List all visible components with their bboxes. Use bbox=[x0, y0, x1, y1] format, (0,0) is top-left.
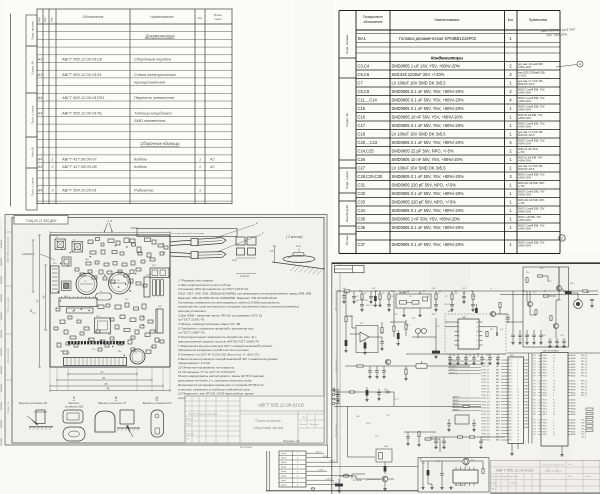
svg-text:R1: R1 bbox=[346, 293, 348, 295]
output stage box bbox=[523, 267, 569, 347]
svg-text:SMD0805 22 pF 50V, NPO, +/-5%: SMD0805 22 pF 50V, NPO, +/-5% bbox=[392, 149, 454, 154]
svg-text:Р0: Р0 bbox=[534, 392, 536, 394]
ground bbox=[402, 308, 405, 317]
svg-text:Обозначение: Обозначение bbox=[83, 15, 104, 19]
svg-text:SMD0805 0.1 uF 50V, Y5V, +80%/: SMD0805 0.1 uF 50V, Y5V, +80%/-20% bbox=[392, 242, 464, 247]
svg-text:Фор.: Фор. bbox=[44, 16, 47, 22]
wire riser from PCB edge bbox=[327, 445, 329, 458]
svg-text:ПОРТ_8.0: ПОРТ_8.0 bbox=[482, 385, 490, 387]
svg-text:+12В_4: +12В_4 bbox=[318, 470, 324, 472]
ground bbox=[368, 375, 371, 378]
ground bbox=[488, 362, 491, 365]
ground bbox=[434, 308, 437, 311]
resistor R54 bbox=[535, 310, 537, 315]
svg-text:5: 5 bbox=[459, 340, 460, 342]
svg-text:7: 7 bbox=[517, 379, 518, 381]
svg-text:ВВ15: ВВ15 bbox=[496, 408, 500, 410]
svg-text:Цепь5: Цепь5 bbox=[281, 471, 286, 473]
capacitor C33 (electrolytic) bbox=[397, 330, 400, 342]
svg-text:C65: C65 bbox=[560, 335, 563, 337]
svg-text:РВ3.4: РВ3.4 bbox=[543, 420, 547, 422]
svg-text:ТЗЩ-00.21 555 ДВУ: ТЗЩ-00.21 555 ДВУ bbox=[25, 219, 57, 223]
vertical dimension 15 bbox=[32, 240, 35, 292]
svg-text:Р1: Р1 bbox=[534, 426, 536, 428]
svg-text:BA1: BA1 bbox=[586, 291, 590, 294]
ground bbox=[456, 362, 459, 365]
inductor L2 (coupled coils) bbox=[415, 328, 426, 333]
svg-text:ВЫХ2: ВЫХ2 bbox=[571, 373, 576, 375]
svg-text:Сборочный чертеж: Сборочный чертеж bbox=[253, 426, 284, 430]
svg-text:Справ. №: Справ. № bbox=[6, 402, 10, 414]
smd component E27 bbox=[107, 271, 112, 274]
op-amp DA3 bbox=[356, 326, 378, 353]
board reference labels bbox=[53, 237, 162, 355]
electrolytic capacitor C5 bbox=[76, 274, 97, 295]
svg-text:R56: R56 bbox=[570, 283, 573, 285]
capacitor C52 bbox=[464, 354, 468, 362]
svg-text:R21: R21 bbox=[60, 351, 63, 353]
svg-text:P0.0: P0.0 bbox=[509, 411, 512, 413]
resistor R66 bbox=[418, 432, 420, 443]
inductor L1 (oval) bbox=[96, 293, 112, 300]
svg-text:РВ1.5: РВ1.5 bbox=[543, 381, 547, 383]
IC DA2 TDA7233 bbox=[445, 314, 506, 354]
svg-text:ПОРТ_11.1: ПОРТ_11.1 bbox=[482, 395, 490, 397]
svg-text:1: 1 bbox=[199, 188, 201, 192]
svg-text:Перв. примен.: Перв. примен. bbox=[31, 20, 35, 40]
svg-text:R33: R33 bbox=[432, 314, 435, 316]
svg-text:Цепь7: Цепь7 bbox=[281, 480, 286, 482]
smd component E15 bbox=[152, 240, 156, 244]
smd component F8 bbox=[118, 270, 122, 273]
svg-text:Р0: Р0 bbox=[534, 408, 536, 410]
smd component E62 bbox=[152, 345, 156, 348]
svg-text:ВВ20: ВВ20 bbox=[496, 424, 500, 426]
wire into title area bbox=[337, 290, 340, 292]
svg-text:ВВ7: ВВ7 bbox=[496, 382, 499, 384]
svg-text:РВ2.5: РВ2.5 bbox=[543, 406, 547, 408]
smd component E39 bbox=[134, 307, 139, 310]
svg-text:LV 100uF 16V SMD DK 3x5.5: LV 100uF 16V SMD DK 3x5.5 bbox=[392, 166, 447, 171]
transistor VT3 bbox=[385, 359, 390, 364]
capacitor C41 bbox=[496, 332, 497, 336]
svg-text:1: 1 bbox=[297, 453, 298, 455]
pad K4 bbox=[62, 281, 72, 291]
svg-text:РВ2.2: РВ2.2 bbox=[543, 403, 547, 405]
ground bbox=[377, 397, 380, 400]
capacitor C61 bbox=[518, 330, 522, 341]
svg-text:Цепь3: Цепь3 bbox=[281, 462, 286, 464]
IC DD2 bbox=[541, 350, 568, 446]
ground bbox=[480, 362, 483, 365]
smd component E25 bbox=[80, 273, 85, 276]
svg-text:16: 16 bbox=[517, 408, 519, 410]
svg-text:22: 22 bbox=[553, 387, 555, 389]
capacitor C76 (electrolytic horizontal) bbox=[335, 479, 343, 489]
svg-text:SMD0805 1 uF 16V, Y5V, +80%/-2: SMD0805 1 uF 16V, Y5V, +80%/-20% bbox=[392, 64, 461, 69]
svg-text:22: 22 bbox=[517, 427, 519, 429]
svg-text:C7: C7 bbox=[358, 81, 364, 86]
svg-text:АВГТ 555.12.00-01Э1: АВГТ 555.12.00-01Э1 bbox=[495, 469, 534, 473]
svg-text:Инв.№: Инв.№ bbox=[31, 147, 35, 157]
svg-text:Схема электрическая: Схема электрическая bbox=[134, 72, 176, 77]
svg-text:4: 4 bbox=[579, 63, 581, 67]
svg-text:DA1: DA1 bbox=[85, 258, 89, 261]
svg-text:установки DD5: установки DD5 bbox=[64, 405, 84, 408]
resistor R32 bbox=[405, 320, 407, 336]
svg-text:25: 25 bbox=[553, 389, 555, 391]
svg-text:ВЫХ5: ВЫХ5 bbox=[571, 395, 576, 397]
svg-text:SMD0805 0.1 uF 50V, Y5V, +80%/: SMD0805 0.1 uF 50V, Y5V, +80%/-20% bbox=[392, 208, 464, 213]
svg-text:C51: C51 bbox=[452, 355, 455, 357]
svg-text:VT3: VT3 bbox=[406, 325, 409, 327]
svg-text:РЕГ_3.1: РЕГ_3.1 bbox=[581, 384, 587, 386]
capacitor C62 bbox=[590, 299, 594, 304]
smd component F14 bbox=[140, 325, 144, 328]
svg-text:ПОРТ_3.1: ПОРТ_3.1 bbox=[482, 369, 490, 371]
svg-text:Цепь8: Цепь8 bbox=[281, 485, 286, 487]
detail: VD mounting bbox=[27, 410, 53, 430]
svg-text:РВ0.2: РВ0.2 bbox=[543, 370, 547, 372]
smd component F20 bbox=[66, 342, 70, 345]
svg-text:Подп. и дата: Подп. и дата bbox=[31, 177, 35, 196]
fanout wires left of DD1 (lower) bbox=[452, 396, 481, 412]
capacitor C55 bbox=[488, 354, 492, 362]
svg-text:А4: А4 bbox=[37, 165, 42, 169]
svg-text:А4: А4 bbox=[37, 188, 42, 192]
smd component F11 bbox=[80, 332, 84, 335]
resistor R56 bbox=[583, 290, 588, 292]
wire y392 row bbox=[334, 387, 350, 392]
smd component E32 bbox=[129, 279, 133, 283]
svg-text:P1.1: P1.1 bbox=[509, 440, 512, 442]
svg-text:РВ3.1: РВ3.1 bbox=[543, 426, 547, 428]
wire +UP power bus bbox=[337, 290, 598, 292]
wire opamp input bbox=[350, 333, 360, 335]
small box U3 bbox=[455, 415, 469, 424]
svg-text:P6.2: P6.2 bbox=[509, 430, 512, 432]
svg-text:1: 1 bbox=[199, 158, 201, 162]
svg-text:R31: R31 bbox=[394, 314, 397, 316]
svg-text:R21: R21 bbox=[350, 316, 353, 318]
ground bbox=[417, 443, 420, 446]
svg-text:13: 13 bbox=[553, 406, 555, 408]
ground bbox=[375, 375, 378, 378]
smd component F5 bbox=[141, 260, 145, 263]
svg-text:8: 8 bbox=[297, 485, 298, 487]
capacitor C44 bbox=[506, 314, 510, 323]
ground bbox=[421, 482, 424, 489]
svg-text:РЕГ_2.0: РЕГ_2.0 bbox=[581, 373, 587, 375]
svg-text:VR1: VR1 bbox=[158, 306, 162, 308]
svg-text:ВВ13: ВВ13 bbox=[496, 401, 500, 403]
transistor VT9 bbox=[553, 323, 558, 328]
resistor R52 bbox=[538, 275, 543, 277]
smd component E3 bbox=[101, 243, 104, 246]
svg-text:РЕГ_2.1: РЕГ_2.1 bbox=[581, 392, 587, 394]
svg-text:25: 25 bbox=[553, 361, 555, 363]
svg-text:ВЫХ7: ВЫХ7 bbox=[571, 367, 576, 369]
svg-text:XS1: XS1 bbox=[66, 353, 70, 355]
svg-text:ПОРТ_5.7: ПОРТ_5.7 bbox=[482, 376, 490, 378]
svg-text:ВЫХ0: ВЫХ0 bbox=[571, 370, 576, 372]
ground bbox=[462, 300, 465, 303]
svg-text:ВВ18: ВВ18 bbox=[496, 417, 500, 419]
svg-text:РВ1.5: РВ1.5 bbox=[543, 389, 547, 391]
wire link boxes bbox=[506, 321, 523, 323]
svg-text:17: 17 bbox=[517, 411, 519, 413]
wire bbox=[445, 321, 455, 323]
smd component E46 bbox=[124, 329, 130, 332]
ground bbox=[397, 342, 400, 345]
capacitor C63 bbox=[532, 330, 536, 341]
svg-text:9 Высота выступающих концоВ в: 9 Высота выступающих концоВ выводноЙ 407… bbox=[178, 357, 278, 361]
smd component E65 bbox=[98, 348, 102, 351]
svg-text:C26: C26 bbox=[358, 157, 366, 162]
vertical bus pair bbox=[528, 353, 530, 444]
wire long y366 bbox=[345, 365, 470, 367]
svg-text:C4: C4 bbox=[373, 296, 375, 298]
svg-text:C27: C27 bbox=[358, 166, 366, 171]
connector XP1 (left edge) bbox=[51, 266, 60, 293]
svg-text:C11,..,C14: C11,..,C14 bbox=[358, 98, 378, 103]
svg-text:P7.3: P7.3 bbox=[509, 408, 512, 410]
svg-text:DA4: DA4 bbox=[384, 445, 388, 448]
resistor R45 bbox=[499, 303, 501, 308]
ground bbox=[404, 377, 407, 380]
svg-text:ВЫХ5: ВЫХ5 bbox=[571, 406, 576, 408]
svg-text:2: 2 bbox=[459, 326, 460, 328]
ground bbox=[352, 300, 355, 303]
capacitor C75 (electrolytic) bbox=[384, 462, 387, 474]
svg-text:5: 5 bbox=[297, 471, 298, 473]
svg-text:20: 20 bbox=[517, 421, 519, 423]
svg-text:C24,C25: C24,C25 bbox=[358, 149, 375, 154]
svg-text:ПОРТ_14.2: ПОРТ_14.2 bbox=[482, 405, 490, 407]
ground bbox=[472, 362, 475, 365]
capacitor C64 bbox=[539, 330, 543, 341]
svg-text:+/-20%: +/-20% bbox=[518, 75, 527, 78]
ground bbox=[532, 341, 535, 344]
svg-text:1: 1 bbox=[52, 158, 54, 162]
svg-text:РВ3.4: РВ3.4 bbox=[543, 428, 547, 430]
ground bbox=[369, 300, 372, 303]
svg-text:+80%/-20%: +80%/-20% bbox=[518, 92, 532, 95]
smd component E2 bbox=[96, 238, 100, 241]
svg-text:19: 19 bbox=[553, 411, 555, 413]
svg-text:2: 2 bbox=[297, 458, 298, 460]
smd component E43 bbox=[140, 316, 144, 320]
svg-text:Фор.: Фор. bbox=[38, 16, 41, 22]
capacitor C84 bbox=[447, 419, 451, 428]
svg-text:( 2 места): ( 2 места) bbox=[286, 235, 303, 239]
svg-text:P1.1: P1.1 bbox=[509, 389, 512, 391]
svg-text:C15: C15 bbox=[92, 349, 95, 351]
svg-text:R8: R8 bbox=[463, 293, 465, 295]
svg-text:P6.2: P6.2 bbox=[509, 379, 512, 381]
resistor R37 bbox=[350, 391, 355, 393]
capacitor C61 (electrolytic coupling) bbox=[562, 288, 572, 294]
resistor R33 bbox=[417, 334, 419, 338]
transistor VT6 bbox=[490, 311, 495, 316]
svg-text:VT1: VT1 bbox=[360, 323, 363, 325]
svg-text:C71: C71 bbox=[422, 463, 425, 465]
svg-text:BA1: BA1 bbox=[358, 36, 367, 41]
svg-text:6: 6 bbox=[553, 370, 554, 372]
svg-text:Р4: Р4 bbox=[534, 428, 536, 430]
wires from XS2 bbox=[306, 453, 418, 485]
svg-text:Масштаб: Масштаб bbox=[310, 424, 320, 426]
svg-text:АВГТ 555.12.00-01СБ: АВГТ 555.12.00-01СБ bbox=[61, 56, 103, 61]
wire y432 bbox=[404, 431, 436, 433]
PCB title block bbox=[185, 396, 324, 443]
svg-text:DD3: DD3 bbox=[436, 461, 440, 463]
svg-text:Изм Лист № докум. Подп. Да: Изм Лист № докум. Подп. Дата bbox=[491, 475, 519, 478]
svg-text:ВЫХ9: ВЫХ9 bbox=[571, 389, 576, 391]
svg-text:Р2: Р2 bbox=[534, 387, 536, 389]
svg-text:C9: C9 bbox=[400, 293, 402, 295]
svg-text:3 Для ПМИ - навесная часть РМ: 3 Для ПМИ - навесная часть РМ Н2, состав… bbox=[178, 313, 263, 317]
svg-text:16: 16 bbox=[553, 408, 555, 410]
svg-text:DD1: DD1 bbox=[64, 296, 68, 298]
capacitor C83 bbox=[479, 437, 483, 446]
svg-text:РВ2.0: РВ2.0 bbox=[543, 408, 547, 410]
smd component E60 bbox=[128, 340, 132, 344]
svg-text:А4: А4 bbox=[37, 158, 42, 162]
ground bbox=[562, 345, 565, 348]
svg-text:10: 10 bbox=[517, 389, 519, 391]
capacitor bank C11-C13 bbox=[153, 279, 164, 296]
svg-text:Кол: Кол bbox=[198, 16, 203, 20]
svg-text:Вариант установки С5: Вариант установки С5 bbox=[98, 402, 126, 405]
svg-text:3: 3 bbox=[297, 462, 298, 464]
svg-text:+80%/-20%: +80%/-20% bbox=[518, 100, 532, 103]
ground bbox=[510, 452, 513, 455]
ground bbox=[472, 428, 475, 431]
smd component F18 bbox=[56, 308, 60, 311]
svg-text:22: 22 bbox=[553, 414, 555, 416]
smd component E35 bbox=[98, 305, 104, 309]
smd component E4 bbox=[108, 239, 114, 243]
svg-text:ИМС КР1878ВЕ1: ИМС КР1878ВЕ1 bbox=[543, 350, 560, 352]
svg-text:SM1325 2200uF 25V +/-20%: SM1325 2200uF 25V +/-20% bbox=[392, 72, 445, 77]
svg-text:Р1: Р1 bbox=[534, 361, 536, 363]
pad K3 bbox=[62, 257, 71, 266]
smd component E53 bbox=[57, 343, 61, 347]
electrolytic capacitor C7 bbox=[130, 349, 145, 364]
resistor R67 (horizontal) bbox=[425, 438, 431, 440]
svg-text:11: 11 bbox=[553, 431, 555, 433]
svg-text:Р7: Р7 bbox=[534, 431, 536, 433]
svg-text:СБРОС_3: СБРОС_3 bbox=[449, 369, 457, 371]
smd component E59 bbox=[118, 342, 123, 345]
svg-text:Р2: Р2 bbox=[534, 434, 536, 436]
svg-text:P0.0: P0.0 bbox=[509, 360, 512, 362]
wire lower connect bbox=[356, 476, 382, 479]
svg-text:ПОРТ_19.1: ПОРТ_19.1 bbox=[482, 421, 490, 423]
ground bbox=[450, 308, 453, 311]
capacitor C39 (electrolytic) bbox=[366, 387, 369, 398]
svg-text:R8: R8 bbox=[142, 317, 144, 319]
capacitor C62 bbox=[525, 330, 529, 341]
svg-text:4: 4 bbox=[459, 336, 460, 338]
svg-text:Вариант установки VD: Вариант установки VD bbox=[19, 402, 47, 405]
resistor R71 bbox=[457, 436, 462, 438]
svg-text:10: 10 bbox=[553, 403, 555, 405]
ground bbox=[311, 487, 315, 491]
resistor R41 bbox=[486, 331, 488, 336]
smd component E52 bbox=[70, 336, 76, 339]
svg-text:Позиционное: Позиционное bbox=[363, 15, 383, 19]
svg-text:ПОРТ_2.6: ПОРТ_2.6 bbox=[482, 366, 490, 368]
svg-text:P5.1: P5.1 bbox=[509, 427, 512, 429]
capacitor C85 bbox=[472, 419, 476, 428]
clock generator box bbox=[418, 458, 489, 493]
svg-text:C63: C63 bbox=[542, 335, 545, 337]
svg-text:ВВ5: ВВ5 bbox=[496, 376, 499, 378]
svg-text:R64: R64 bbox=[356, 416, 359, 418]
svg-text:9: 9 bbox=[517, 385, 518, 387]
svg-text:VT4: VT4 bbox=[436, 326, 439, 328]
svg-text:Кол: Кол bbox=[508, 18, 514, 22]
ground bbox=[518, 341, 521, 344]
svg-text:Подп. и дата: Подп. и дата bbox=[6, 296, 10, 313]
right lower label block bbox=[581, 420, 586, 439]
IC DA1 bbox=[67, 308, 94, 313]
wire left rail branch bbox=[345, 291, 347, 316]
power module box bbox=[396, 291, 431, 308]
svg-text:Р7: Р7 bbox=[534, 384, 536, 386]
svg-text:Подп. и дата: Подп. и дата bbox=[31, 105, 35, 124]
far right label blocks bbox=[581, 355, 587, 397]
svg-text:принципиальная: принципиальная bbox=[545, 471, 563, 473]
svg-text:C18: C18 bbox=[472, 296, 475, 298]
svg-text:C7: C7 bbox=[135, 353, 137, 355]
resistor R36 bbox=[405, 366, 407, 377]
svg-text:C33: C33 bbox=[358, 200, 366, 205]
wire x478 drop bbox=[477, 353, 479, 357]
svg-text:11: 11 bbox=[476, 326, 478, 328]
svg-text:R3: R3 bbox=[382, 293, 384, 295]
smd component E13 bbox=[137, 247, 141, 253]
ground bbox=[464, 362, 467, 365]
svg-text:ВВ9: ВВ9 bbox=[496, 389, 499, 391]
svg-text:просмотренной смазкой частью А: просмотренной смазкой частью АПП-В ГОСТ … bbox=[178, 339, 260, 343]
svg-text:ВЫХ2: ВЫХ2 bbox=[571, 423, 576, 425]
svg-text:C15: C15 bbox=[358, 106, 366, 111]
svg-text:P5.1: P5.1 bbox=[509, 401, 512, 403]
svg-text:24: 24 bbox=[517, 433, 519, 435]
ground bbox=[434, 355, 437, 358]
svg-text:3: 3 bbox=[517, 366, 518, 368]
resistor R73 on wire y408 bbox=[458, 405, 481, 407]
detail: 07 mounting bbox=[151, 410, 164, 437]
smd component E51 bbox=[64, 330, 68, 334]
DD2 left labels bbox=[534, 355, 542, 436]
svg-text:А3: А3 bbox=[37, 73, 42, 77]
smd component E38 bbox=[125, 303, 129, 307]
wire h337 bbox=[412, 336, 436, 338]
svg-text:6: 6 bbox=[459, 345, 460, 347]
svg-text:Н.контр.: Н.контр. bbox=[186, 434, 194, 436]
svg-text:РВ0.7: РВ0.7 bbox=[543, 376, 547, 378]
smd component E7 bbox=[132, 243, 136, 246]
svg-text:19: 19 bbox=[553, 355, 555, 357]
svg-text:0: 0 bbox=[553, 420, 554, 422]
svg-text:ВВ3: ВВ3 bbox=[496, 369, 499, 371]
svg-text:А2: А2 bbox=[209, 158, 214, 162]
svg-text:VT5: VT5 bbox=[146, 275, 149, 277]
